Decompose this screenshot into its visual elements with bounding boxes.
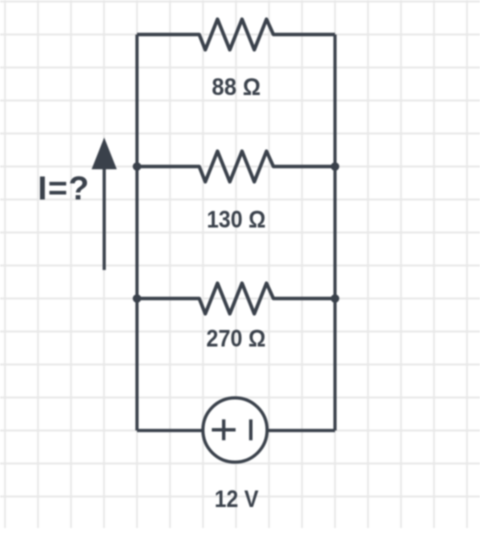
wire bottom right [268, 429, 336, 432]
wire bottom left [137, 429, 203, 432]
current arrow shaft [103, 164, 106, 270]
wire left vertical [135, 35, 138, 431]
junction dot left row3 [133, 294, 142, 303]
junction dot right row3 [331, 294, 340, 303]
junction dot left row2 [133, 162, 142, 171]
junction dot right row2 [331, 162, 340, 171]
voltage source V1 circle [203, 398, 267, 462]
svg-text:130 Ω: 130 Ω [207, 207, 266, 234]
V1 plus sign [212, 419, 236, 440]
current arrow head [92, 138, 117, 170]
svg-text:12 V: 12 V [215, 486, 259, 513]
svg-text:I=?: I=? [38, 171, 90, 208]
resistor R2 (130 ohm) with row wires [137, 151, 335, 182]
svg-text:88 Ω: 88 Ω [212, 74, 261, 101]
resistor R1 (88 ohm) with top wires [137, 19, 335, 50]
resistor R3 (270 ohm) with row wires [137, 283, 335, 314]
V1 minus bar [249, 419, 252, 440]
svg-text:270 Ω: 270 Ω [206, 325, 265, 352]
wire right vertical [333, 35, 336, 431]
